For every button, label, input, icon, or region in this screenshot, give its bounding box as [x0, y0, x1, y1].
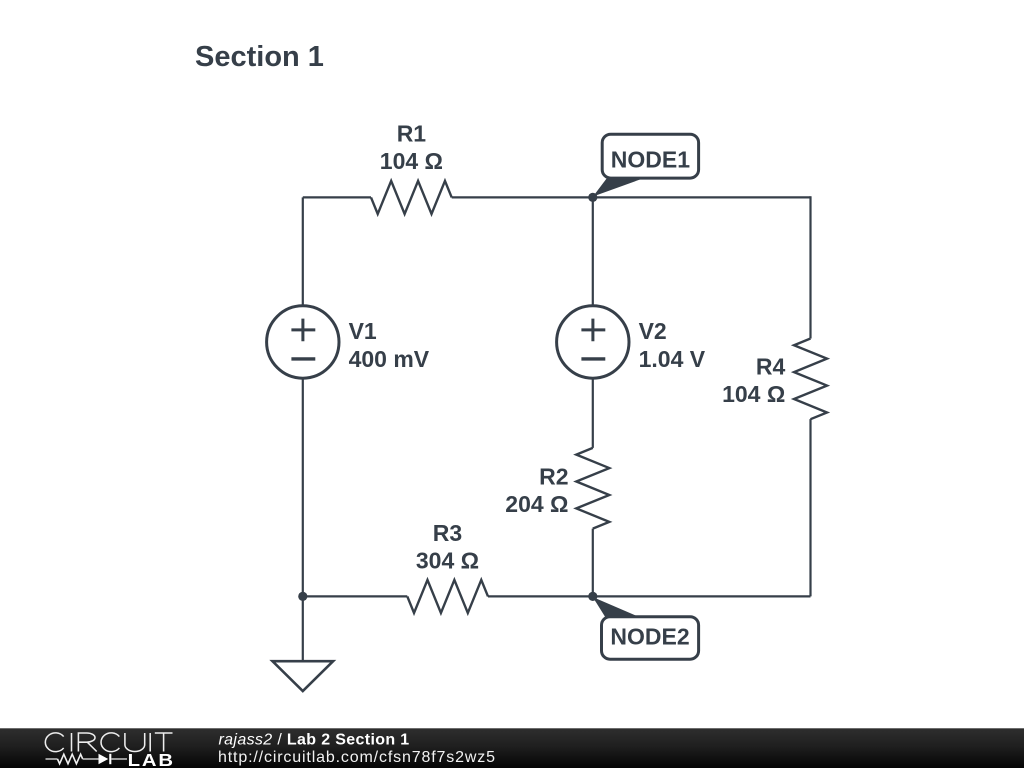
voltage source V1 — [267, 306, 339, 378]
svg-text:R2: R2 — [539, 464, 568, 490]
voltage source V2 — [557, 306, 629, 378]
ground — [273, 661, 334, 691]
wire right vertical upper (corner to R4) — [809, 196, 811, 338]
logo resistor squiggle lead — [46, 758, 58, 760]
svg-text:LAB: LAB — [128, 751, 175, 768]
wire bottom-left horizontal (node to R3) — [303, 595, 408, 597]
wire left vertical upper (corner to V1) — [302, 197, 304, 306]
svg-text:NODE2: NODE2 — [610, 624, 689, 650]
svg-text:http://circuitlab.com/cfsn78f7: http://circuitlab.com/cfsn78f7s2wz5 — [218, 749, 496, 766]
logo wire to diode — [83, 758, 99, 760]
logo diode triangle — [99, 754, 109, 764]
wire bottom horizontal (R3 to bottom-right corner) — [488, 595, 811, 597]
wire left vertical lower (V1 to bottom-left node) — [302, 378, 304, 597]
resistor R3 — [407, 580, 488, 613]
resistor R4 — [794, 339, 827, 420]
logo diode cathode bar — [109, 754, 111, 764]
wire ground stem — [302, 596, 304, 661]
logo wire after diode — [111, 758, 127, 760]
svg-text:104 Ω: 104 Ω — [722, 381, 785, 407]
wire middle vertical upper (NODE1 to V2) — [592, 197, 594, 306]
junction node dot at NODE2 — [588, 592, 597, 601]
resistor R1 — [371, 181, 452, 214]
node NODE1 pointer — [593, 179, 643, 197]
logo CIRCUIT wordmark — [45, 733, 172, 752]
svg-text:1.04 V: 1.04 V — [639, 346, 706, 372]
wire right vertical lower (R4 to bottom-right corner) — [809, 419, 811, 596]
svg-text:Section 1: Section 1 — [195, 41, 324, 73]
junction node dot bottom-left — [298, 592, 307, 601]
resistor R2 — [576, 448, 609, 529]
svg-text:104 Ω: 104 Ω — [380, 148, 443, 174]
logo resistor squiggle zigzag — [58, 754, 83, 764]
svg-text:304 Ω: 304 Ω — [416, 547, 479, 573]
svg-text:204 Ω: 204 Ω — [505, 491, 568, 517]
wire top horizontal (R1 to top-right corner) — [452, 196, 811, 198]
wire middle vertical (V2 to R2) — [592, 378, 594, 448]
svg-text:R3: R3 — [433, 520, 462, 546]
node NODE2 pointer — [593, 597, 642, 618]
svg-text:R4: R4 — [756, 354, 786, 380]
footer bar — [0, 728, 1024, 768]
svg-text:V2: V2 — [639, 318, 667, 344]
svg-text:rajass2 / Lab 2 Section 1: rajass2 / Lab 2 Section 1 — [219, 731, 410, 748]
wire middle vertical lower (R2 to bottom node) — [592, 529, 594, 597]
svg-text:V1: V1 — [349, 318, 377, 344]
svg-text:R1: R1 — [397, 121, 427, 147]
node NODE1 bubble — [602, 134, 698, 178]
wire top-left horizontal (node to R1) — [303, 196, 371, 198]
node NODE2 bubble — [602, 617, 699, 660]
svg-text:400 mV: 400 mV — [349, 346, 430, 372]
svg-text:NODE1: NODE1 — [611, 147, 690, 173]
junction node dot at NODE1 — [588, 193, 597, 202]
